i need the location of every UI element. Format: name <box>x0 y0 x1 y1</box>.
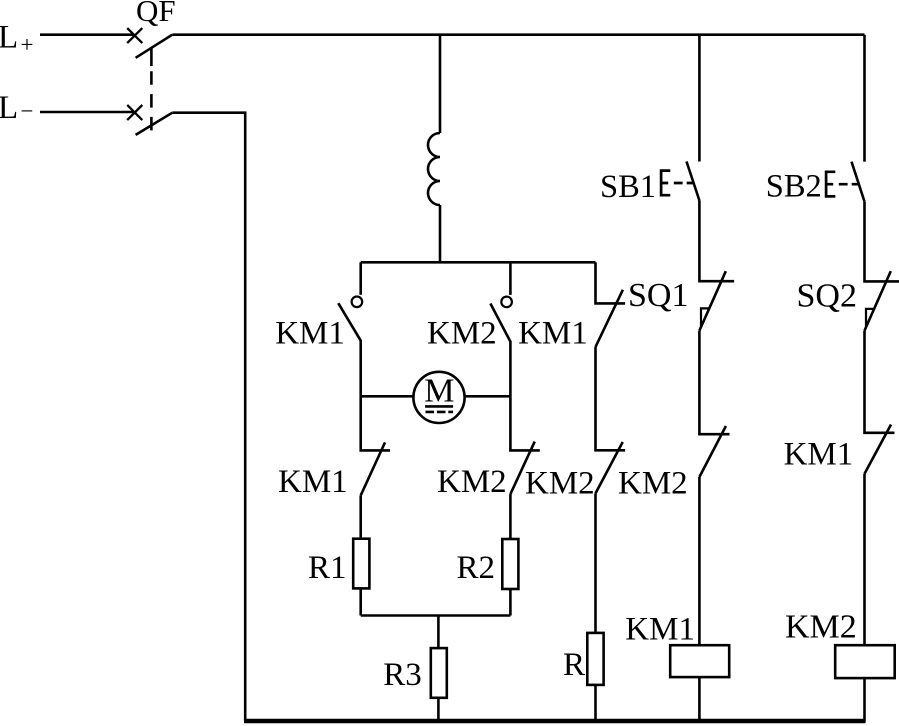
svg-text:SQ2: SQ2 <box>797 278 857 315</box>
svg-text:SQ1: SQ1 <box>628 277 688 314</box>
svg-text:KM1: KM1 <box>275 315 345 351</box>
svg-text:KM2: KM2 <box>427 315 497 351</box>
svg-text:R2: R2 <box>457 550 496 586</box>
svg-text:L: L <box>0 20 18 56</box>
svg-text:R3: R3 <box>383 657 422 693</box>
svg-text:KM2: KM2 <box>785 609 857 646</box>
svg-text:KM2: KM2 <box>525 465 595 501</box>
svg-text:R: R <box>563 647 585 683</box>
svg-text:SB2: SB2 <box>766 168 822 204</box>
svg-text:−: − <box>21 99 34 124</box>
svg-text:+: + <box>21 32 34 57</box>
svg-text:KM1: KM1 <box>625 612 695 648</box>
svg-text:KM1: KM1 <box>518 315 588 351</box>
svg-text:M: M <box>424 373 454 410</box>
svg-text:SB1: SB1 <box>600 169 656 205</box>
svg-text:KM1: KM1 <box>278 464 348 500</box>
svg-text:KM1: KM1 <box>784 436 854 472</box>
svg-text:L: L <box>0 90 18 126</box>
svg-text:KM2: KM2 <box>437 464 507 500</box>
svg-text:QF: QF <box>136 0 176 28</box>
svg-text:R1: R1 <box>308 550 347 586</box>
svg-text:KM2: KM2 <box>618 465 688 501</box>
